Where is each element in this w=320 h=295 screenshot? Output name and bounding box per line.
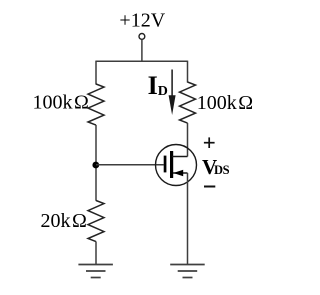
wire top rail bbox=[96, 60, 188, 62]
svg-text:DS: DS bbox=[214, 163, 230, 177]
wire right branch top bbox=[187, 61, 189, 83]
wire from +12V terminal down to top rail bbox=[141, 40, 143, 62]
svg-text:100kΩ: 100kΩ bbox=[33, 92, 89, 114]
ground (left) bbox=[78, 265, 113, 278]
terminal (open circle) at +12V bbox=[139, 34, 145, 40]
wire left branch top bbox=[95, 61, 97, 85]
wire source vertical down to ground bbox=[187, 173, 189, 265]
label plus sign (VDS polarity) bbox=[204, 137, 215, 148]
svg-text:+12V: +12V bbox=[119, 10, 165, 32]
wire left branch middle bbox=[95, 125, 97, 201]
transistor drain stub bbox=[172, 156, 188, 158]
ID current arrow bbox=[171, 70, 173, 99]
wire left branch bottom bbox=[95, 242, 97, 265]
resistor R2 100k (right/drain) bbox=[180, 82, 196, 123]
transistor source arrowhead bbox=[173, 170, 183, 176]
ground (right) bbox=[170, 265, 205, 278]
svg-text:20kΩ: 20kΩ bbox=[41, 210, 87, 232]
wire drain vertical bbox=[187, 123, 189, 157]
transistor channel bar bbox=[170, 151, 173, 178]
node junction dot (gate bias node) bbox=[92, 162, 99, 169]
label minus sign (VDS polarity) bbox=[204, 186, 215, 188]
resistor R1 100k (left upper) bbox=[88, 84, 104, 125]
transistor gate bar bbox=[164, 156, 167, 173]
wire gate (node to MOSFET gate) bbox=[96, 164, 164, 166]
svg-text:100kΩ: 100kΩ bbox=[197, 92, 253, 114]
transistor Q1 MOSFET body circle bbox=[156, 145, 197, 186]
transistor source stub bbox=[173, 172, 188, 174]
resistor R3 20k (left lower) bbox=[88, 201, 104, 242]
